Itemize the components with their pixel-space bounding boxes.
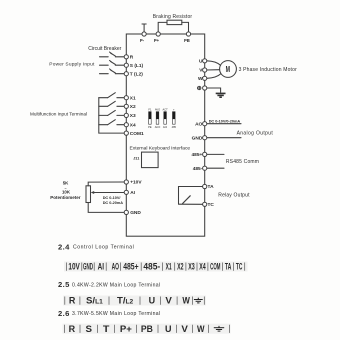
svg-text:X1: X1 (166, 262, 172, 273)
svg-text:COM1: COM1 (130, 131, 144, 137)
svg-text:AI: AI (98, 262, 105, 273)
svg-text:5K: 5K (63, 181, 69, 186)
svg-text:2.5: 2.5 (58, 280, 70, 289)
svg-text:Circuit Breaker: Circuit Breaker (88, 46, 121, 52)
svg-text:485+: 485+ (123, 262, 139, 273)
svg-text:X1: X1 (130, 95, 136, 101)
svg-text:485: 485 (172, 125, 177, 129)
svg-text:AO: AO (195, 121, 202, 127)
svg-text:T (L2): T (L2) (130, 71, 143, 77)
svg-text:0.4KW-2.2KW Main Loop Terminal: 0.4KW-2.2KW Main Loop Terminal (72, 282, 160, 288)
svg-text:485+: 485+ (191, 152, 202, 158)
svg-text:Multifunction Input Terminal: Multifunction Input Terminal (30, 111, 87, 116)
svg-text:W: W (197, 324, 205, 335)
svg-text:2.6: 2.6 (58, 309, 70, 318)
svg-text:485-: 485- (143, 262, 160, 273)
svg-text:Potentiometer: Potentiometer (50, 195, 81, 200)
svg-text:S: S (86, 324, 93, 335)
svg-text:Power Supply Input: Power Supply Input (49, 61, 95, 67)
svg-text:J11: J11 (133, 157, 139, 161)
svg-text:W: W (198, 76, 203, 82)
svg-text:Relay Output: Relay Output (218, 193, 250, 199)
svg-text:ACO: ACO (155, 125, 161, 129)
svg-text:TA: TA (225, 262, 232, 273)
svg-text:M: M (226, 66, 231, 74)
svg-text:GND: GND (83, 262, 93, 273)
svg-text:DC 0-10V/0-20mA: DC 0-10V/0-20mA (209, 119, 241, 123)
svg-text:2.4: 2.4 (58, 242, 70, 251)
svg-text:R: R (69, 296, 76, 307)
svg-text:PB: PB (184, 38, 190, 43)
svg-text:TC: TC (208, 202, 215, 208)
svg-text:U: U (149, 296, 156, 307)
svg-text:485-: 485- (193, 166, 203, 172)
svg-text:V: V (165, 296, 172, 307)
svg-text:X2: X2 (130, 104, 136, 110)
svg-text:X3: X3 (188, 262, 195, 273)
svg-text:COM: COM (210, 262, 220, 273)
svg-text:AO: AO (112, 262, 120, 273)
svg-text:W: W (182, 296, 190, 307)
svg-text:10K: 10K (62, 189, 71, 194)
svg-text:X4: X4 (130, 122, 136, 128)
svg-text:PE: PE (148, 125, 152, 129)
svg-text:P+: P+ (154, 38, 160, 43)
svg-text:V: V (181, 324, 188, 335)
svg-text:DC 0-10V/: DC 0-10V/ (103, 196, 122, 200)
svg-text:ACT: ACT (163, 108, 169, 112)
svg-text:X4: X4 (199, 262, 206, 273)
svg-text:TA: TA (208, 184, 215, 190)
svg-text:P+: P+ (120, 324, 132, 335)
svg-text:AI: AI (130, 190, 135, 196)
svg-text:ACI: ACI (163, 125, 168, 129)
svg-text:TC: TC (236, 262, 243, 273)
svg-text:AVO: AVO (155, 108, 160, 112)
svg-text:PB: PB (141, 324, 153, 335)
svg-text:X3: X3 (130, 113, 136, 119)
svg-text:GND: GND (130, 210, 141, 216)
svg-text:R: R (130, 55, 134, 61)
svg-text:R: R (69, 324, 76, 335)
svg-text:DC 0-20mA: DC 0-20mA (103, 201, 124, 205)
svg-text:3 Phase Induction Motor: 3 Phase Induction Motor (239, 67, 297, 73)
svg-text:3.7KW-5.5KW Main Loop Terminal: 3.7KW-5.5KW Main Loop Terminal (72, 311, 160, 317)
svg-text:+10V: +10V (130, 180, 142, 186)
svg-text:X2: X2 (177, 262, 183, 273)
svg-text:10V: 10V (68, 262, 80, 273)
svg-text:Control Loop Terminal: Control Loop Terminal (73, 244, 134, 250)
svg-text:S (L1): S (L1) (130, 63, 144, 69)
svg-text:Analog Output: Analog Output (237, 131, 274, 137)
svg-text:T: T (103, 324, 110, 335)
svg-text:External Keyboard Interface: External Keyboard Interface (130, 145, 191, 151)
svg-text:RS485 Comm: RS485 Comm (226, 159, 259, 165)
svg-text:U: U (199, 59, 203, 65)
svg-text:GND: GND (192, 135, 203, 141)
svg-text:Braking Resistor: Braking Resistor (153, 14, 193, 20)
svg-text:P-: P- (140, 38, 145, 43)
svg-text:U: U (165, 324, 172, 335)
